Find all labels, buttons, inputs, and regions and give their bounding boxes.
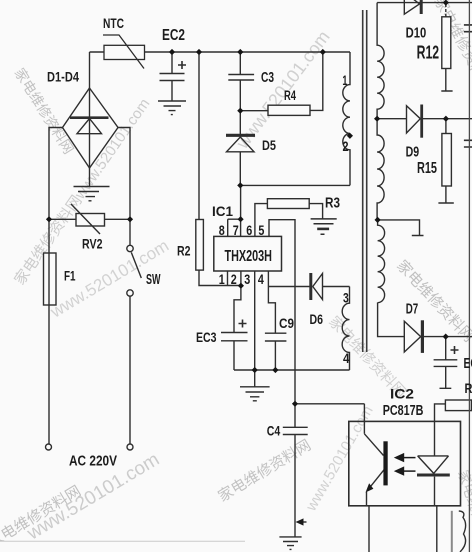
capacitor C3 [228, 52, 254, 111]
wire pin6 R3 [255, 204, 268, 237]
svg-text:D10: D10 [406, 26, 427, 42]
capacitor EC4 [434, 337, 458, 389]
node sec D9 [374, 116, 380, 122]
svg-text:4: 4 [258, 271, 264, 287]
transformer secondary [377, 3, 384, 119]
svg-text:D1-D4: D1-D4 [47, 70, 79, 85]
node R15 top [443, 116, 449, 122]
svg-text:5: 5 [258, 222, 264, 238]
svg-text:EC4: EC4 [464, 355, 472, 372]
node pin2 [238, 283, 244, 289]
watermark mid chinese [325, 313, 409, 401]
svg-text:1: 1 [342, 72, 347, 88]
svg-text:D5: D5 [262, 137, 276, 153]
node R4 top [320, 49, 326, 55]
transformer core [363, 10, 367, 352]
svg-text:F1: F1 [64, 268, 76, 284]
winding 3-4 [342, 287, 349, 371]
node EC4 top [443, 334, 449, 340]
varistor RV2 [76, 214, 105, 227]
capacitor EC3 [221, 333, 248, 371]
node primary joint [347, 133, 353, 139]
svg-text:R3: R3 [325, 196, 340, 212]
svg-text:D6: D6 [310, 311, 324, 327]
wire pin7 [228, 185, 241, 236]
wire bridge right [118, 128, 130, 220]
svg-text:R15: R15 [417, 160, 437, 177]
bridge D1-D4 [63, 88, 119, 168]
watermark top-middle url [232, 27, 334, 153]
svg-text:2: 2 [231, 271, 237, 287]
resistor R4 [240, 110, 268, 112]
ground R3 [311, 219, 337, 234]
svg-text:R2: R2 [177, 243, 191, 259]
svg-text:EC3: EC3 [196, 329, 217, 345]
resistor R12 [445, 4, 447, 17]
capacitor C4 [283, 404, 308, 537]
wire bridge left [49, 128, 63, 220]
svg-text:NTC: NTC [103, 15, 124, 31]
watermark mid-left url [46, 236, 172, 322]
svg-text:IC2: IC2 [390, 386, 414, 402]
opto box IC2 [349, 421, 461, 505]
node RV2 right [127, 216, 133, 222]
opto LED [418, 456, 449, 474]
watermark right-mid chinese [393, 257, 472, 345]
IC U1 box [214, 236, 282, 271]
resistor R15 [445, 119, 447, 134]
svg-text:EC2: EC2 [162, 27, 185, 44]
opto light arrow 1 [404, 457, 416, 459]
wire top rail [90, 51, 351, 53]
node C3 top [237, 49, 243, 55]
watermark mid-bottom chinese [215, 437, 314, 506]
node R2 top [196, 49, 202, 55]
wire pin3 ground column [254, 271, 256, 387]
capacitor right edge mid [464, 140, 472, 147]
svg-text:R1: R1 [465, 380, 472, 396]
capacitor right edge top [464, 25, 472, 32]
wire R16 LED [435, 404, 446, 456]
node gnd rail [252, 367, 258, 373]
svg-text:D7: D7 [406, 301, 419, 318]
watermark bottom-left url [23, 449, 163, 545]
resistor R2 [198, 52, 200, 220]
diode D10 [404, 0, 419, 14]
wire D6 [268, 286, 309, 288]
svg-text:R12: R12 [417, 43, 440, 63]
capacitor EC2 [160, 52, 185, 101]
winding bottom-right [459, 511, 466, 552]
svg-text:C3: C3 [261, 70, 274, 86]
ground EC2 [158, 101, 186, 115]
transformer primary [343, 52, 350, 185]
svg-text:THX203H: THX203H [225, 248, 273, 265]
opto transistor [364, 434, 383, 456]
svg-text:8: 8 [219, 222, 225, 238]
diode D6 [309, 273, 312, 300]
switch SW [129, 219, 131, 245]
border right [468, 0, 470, 552]
node C4 top [292, 401, 298, 407]
svg-text:4: 4 [343, 350, 350, 366]
faint fold line [0, 540, 245, 542]
wire ground rail [234, 369, 350, 371]
opto light arrow 2 [404, 470, 416, 472]
svg-text:3: 3 [244, 271, 250, 287]
wire D7 row [378, 303, 405, 337]
watermark top-left url steep [11, 96, 153, 289]
svg-text:IC1: IC1 [212, 204, 233, 219]
svg-text:R4: R4 [284, 88, 296, 103]
node sec tap [375, 217, 381, 223]
diode D9 [407, 106, 421, 133]
watermark top-right chinese [430, 0, 472, 95]
node C9 bottom [272, 367, 278, 373]
svg-text:1: 1 [219, 271, 225, 287]
node pin7 [238, 216, 244, 222]
wire pin2 [234, 271, 241, 332]
wire left down [48, 219, 50, 443]
wire bridge top [89, 52, 91, 88]
svg-text:6: 6 [246, 222, 252, 238]
fuse F1 [44, 253, 57, 305]
terminal left [46, 444, 52, 450]
svg-text:C9: C9 [279, 315, 294, 331]
svg-text:D9: D9 [406, 144, 420, 161]
svg-text:7: 7 [233, 222, 239, 238]
opto emitter arrow [366, 483, 374, 492]
opto phototransistor bar [383, 441, 387, 485]
svg-text:C4: C4 [267, 423, 281, 439]
watermark bottom-left chinese [0, 483, 84, 552]
zener D5 [239, 111, 241, 134]
resistor R3 [267, 199, 309, 209]
node RV2 left [46, 216, 52, 222]
node D5 bottom [237, 182, 243, 188]
watermark bottom-right chinese [455, 468, 472, 552]
ground bridge [74, 168, 110, 201]
svg-text:PC817B: PC817B [383, 403, 424, 419]
wire gray below opto [451, 511, 453, 552]
svg-text:RV2: RV2 [82, 236, 103, 252]
wire pin5 feedback [269, 220, 295, 404]
capacitor C9 [265, 333, 287, 370]
terminal right [127, 444, 133, 450]
diode D7 [404, 321, 420, 352]
node R12 top [443, 0, 449, 6]
wire opto collector [295, 404, 364, 434]
arrow C4 [296, 518, 304, 525]
node C3 bottom [237, 108, 243, 114]
svg-text:SW: SW [146, 272, 161, 288]
ground C4 [279, 537, 301, 550]
wire node to transformer [240, 184, 350, 186]
svg-text:2: 2 [343, 138, 349, 154]
wire D9 row [377, 118, 406, 120]
watermark mid-bottom url [302, 403, 376, 515]
ground pin3 [240, 387, 270, 401]
wire RV2 rail [49, 218, 130, 220]
svg-text:AC 220V: AC 220V [69, 454, 117, 470]
watermark top-left chinese [11, 65, 77, 157]
resistor R16 [445, 400, 471, 411]
node EC2 [169, 49, 175, 55]
wire secondary top rail [377, 2, 472, 4]
wire pin4 [268, 271, 275, 333]
svg-text:3: 3 [343, 290, 349, 306]
wire tap [378, 220, 424, 236]
NTC thermistor [103, 35, 145, 69]
